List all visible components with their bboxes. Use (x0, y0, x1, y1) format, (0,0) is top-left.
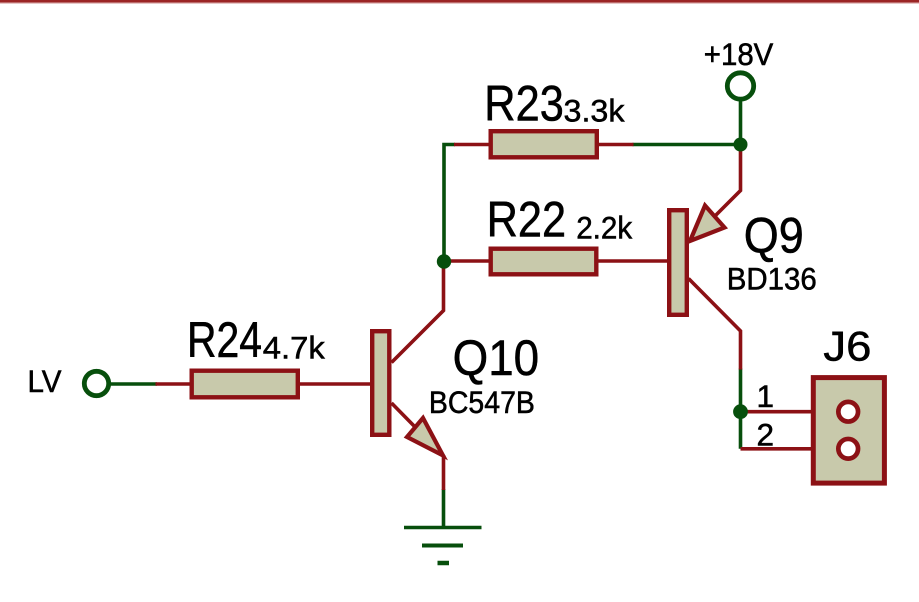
svg-text:R24: R24 (187, 312, 262, 368)
svg-text:2: 2 (757, 417, 775, 453)
svg-text:+18V: +18V (704, 36, 774, 72)
svg-text:R23: R23 (484, 76, 564, 132)
svg-text:BD136: BD136 (727, 261, 817, 297)
svg-text:2.2k: 2.2k (576, 210, 632, 246)
svg-text:3.3k: 3.3k (564, 92, 625, 128)
svg-text:Q10: Q10 (453, 330, 539, 386)
svg-text:1: 1 (757, 378, 775, 414)
svg-text:J6: J6 (823, 322, 871, 369)
svg-text:R22: R22 (487, 191, 566, 247)
svg-text:4.7k: 4.7k (263, 330, 325, 366)
svg-text:BC547B: BC547B (429, 384, 535, 420)
svg-text:Q9: Q9 (744, 208, 804, 264)
svg-text:LV: LV (28, 363, 62, 399)
